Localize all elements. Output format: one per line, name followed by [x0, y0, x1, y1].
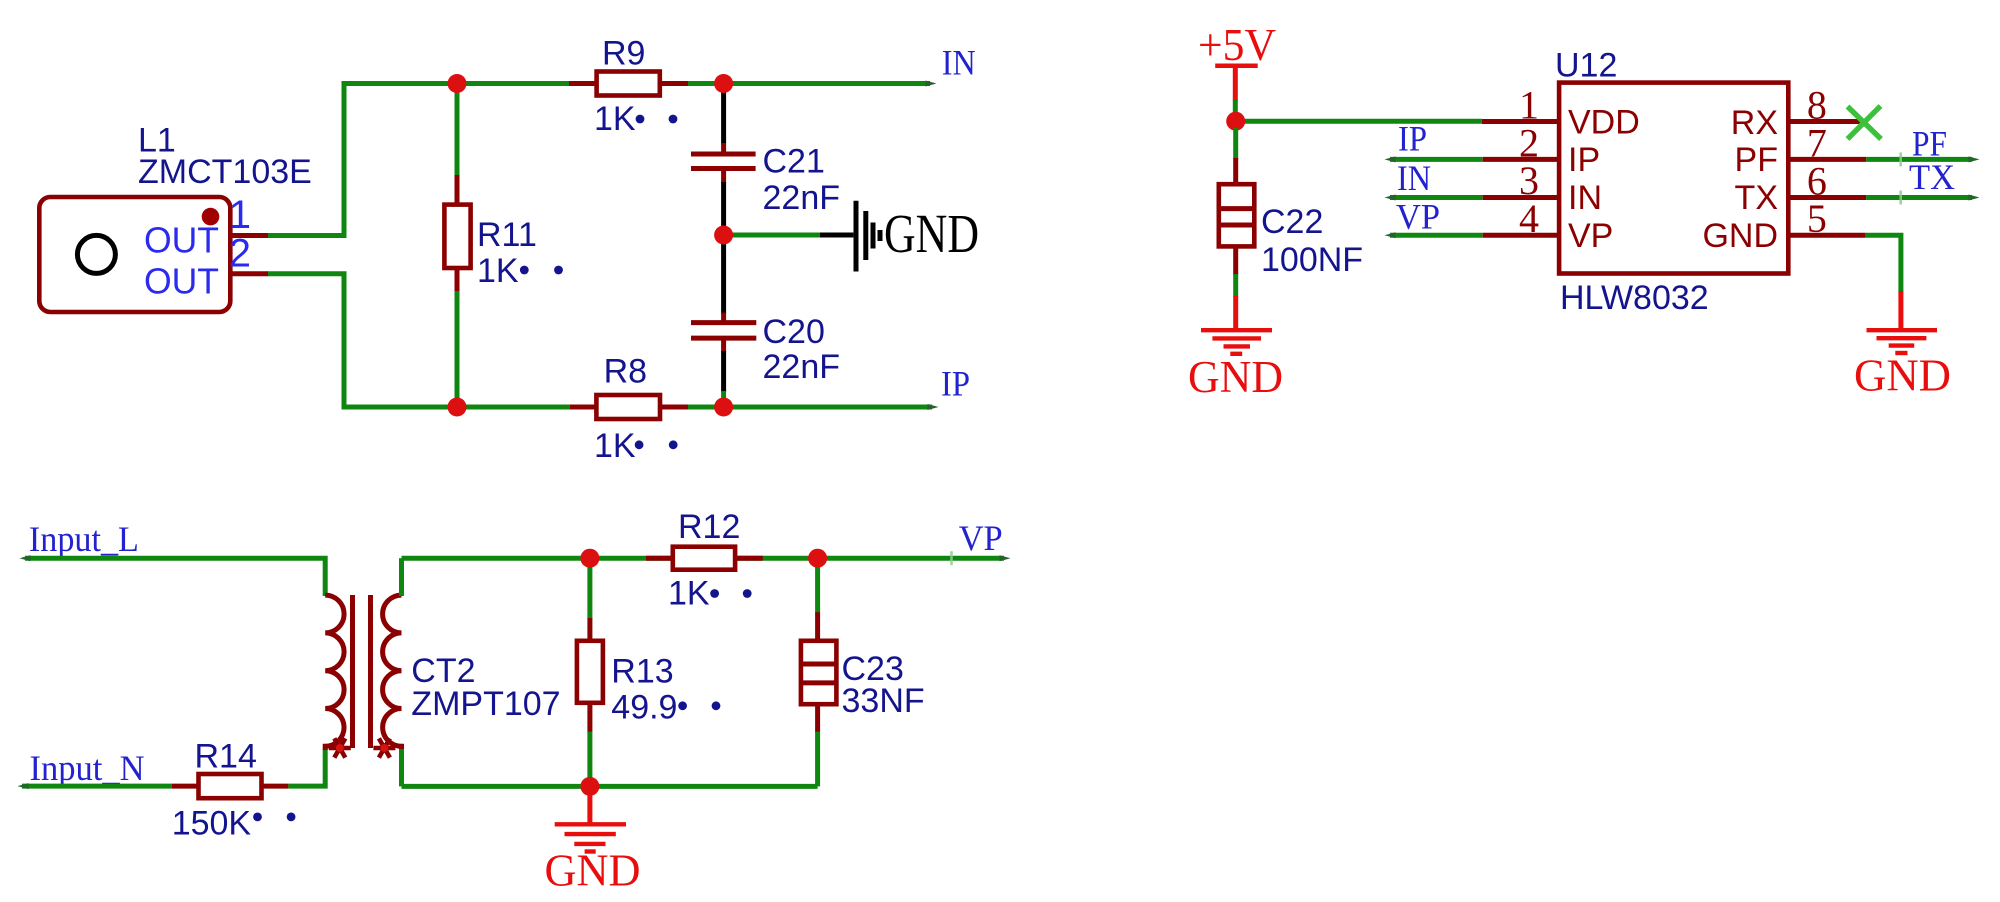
svg-text:C20: C20: [763, 313, 825, 351]
svg-text:IN: IN: [942, 43, 976, 83]
svg-text:GND: GND: [1188, 352, 1283, 402]
svg-text:+5V: +5V: [1198, 20, 1276, 70]
svg-text:R12: R12: [678, 508, 740, 546]
svg-text:1K: 1K: [477, 252, 519, 290]
svg-text:ZMPT107: ZMPT107: [411, 685, 560, 723]
svg-text:33NF: 33NF: [842, 682, 925, 720]
svg-text:PF: PF: [1735, 141, 1778, 179]
svg-text:GND: GND: [1702, 217, 1778, 255]
svg-text:2: 2: [229, 232, 251, 276]
svg-text:R13: R13: [611, 653, 673, 691]
svg-text:R9: R9: [602, 35, 645, 73]
svg-text:1: 1: [229, 193, 251, 237]
svg-text:VDD: VDD: [1568, 104, 1640, 142]
svg-text:49.9: 49.9: [611, 688, 677, 726]
svg-text:IP: IP: [1398, 118, 1427, 158]
svg-text:1K: 1K: [668, 575, 710, 613]
svg-text:OUT: OUT: [144, 261, 219, 302]
svg-text:22nF: 22nF: [763, 179, 841, 217]
svg-text:TX: TX: [1909, 157, 1955, 197]
svg-text:IN: IN: [1397, 158, 1431, 198]
svg-text:Input_N: Input_N: [30, 748, 145, 788]
svg-text:C22: C22: [1261, 203, 1323, 241]
svg-text:VP: VP: [959, 518, 1003, 558]
svg-text:C21: C21: [763, 142, 825, 180]
svg-text:VP: VP: [1396, 197, 1440, 237]
svg-text:GND: GND: [1854, 351, 1951, 401]
svg-text:TX: TX: [1735, 179, 1778, 217]
svg-text:U12: U12: [1555, 46, 1617, 84]
svg-text:R8: R8: [604, 352, 647, 390]
svg-text:RX: RX: [1731, 104, 1778, 142]
svg-text:IP: IP: [941, 363, 970, 403]
svg-text:1K: 1K: [594, 100, 636, 138]
svg-text:ZMCT103E: ZMCT103E: [138, 153, 312, 191]
svg-text:Input_L: Input_L: [29, 519, 139, 559]
svg-text:1K: 1K: [594, 427, 636, 465]
svg-text:R11: R11: [477, 216, 537, 254]
svg-text:IP: IP: [1568, 141, 1600, 179]
svg-text:GND: GND: [884, 203, 979, 264]
svg-text:HLW8032: HLW8032: [1560, 279, 1709, 317]
svg-text:OUT: OUT: [144, 220, 219, 261]
svg-text:150K: 150K: [172, 804, 252, 842]
svg-text:100NF: 100NF: [1261, 241, 1363, 279]
svg-text:R14: R14: [195, 737, 257, 775]
svg-text:4: 4: [1519, 196, 1539, 241]
svg-text:GND: GND: [545, 846, 641, 896]
svg-text:IN: IN: [1568, 179, 1602, 217]
svg-text:22nF: 22nF: [763, 348, 841, 386]
svg-text:VP: VP: [1568, 217, 1613, 255]
